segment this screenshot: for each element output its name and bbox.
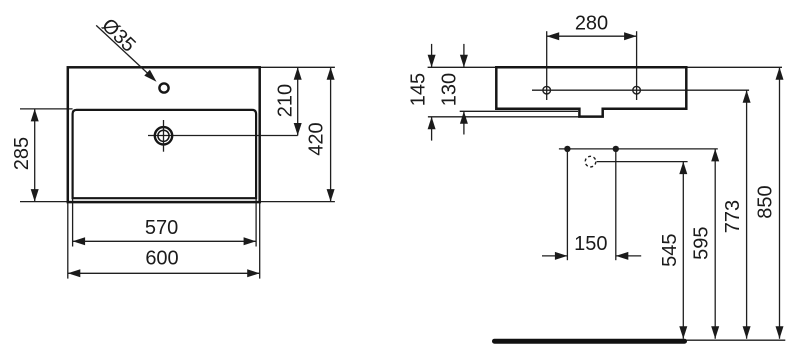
dim 145 line	[431, 44, 433, 67]
dim 570 line	[73, 240, 257, 242]
label Ø35 leader line	[96, 25, 152, 77]
basin outer rect	[68, 67, 260, 202]
mounting-hole centerline (to 773 dim)	[532, 89, 749, 91]
dim 850 line	[779, 67, 781, 339]
svg-text:420: 420	[306, 122, 328, 155]
drain crosshair vertical	[163, 120, 165, 152]
supply dots line	[559, 148, 718, 150]
drain centerline to 210 dim	[148, 135, 298, 137]
mounting hole right	[633, 86, 641, 94]
basin profile	[496, 67, 686, 116]
dim 280 extension lines through holes	[546, 31, 548, 100]
drain outer ring	[155, 127, 172, 144]
svg-text:545: 545	[659, 234, 681, 267]
drain inner ring	[158, 130, 169, 141]
svg-text:210: 210	[275, 84, 297, 117]
top-right extension line (outer top level)	[260, 66, 335, 68]
dim 420 line	[330, 67, 332, 201]
extension line at tab bottom (145 dim)	[428, 116, 580, 118]
faucet hole	[159, 83, 168, 92]
waste outlet centerline (to 545 dim)	[597, 161, 688, 163]
dim 210 line	[297, 67, 299, 135]
dim 570 extension lines	[72, 198, 74, 246]
dim 600 line	[68, 272, 260, 274]
dim 600 extension lines	[67, 202, 69, 279]
svg-text:280: 280	[575, 12, 608, 34]
svg-text:150: 150	[574, 233, 607, 255]
dim 773 line	[746, 90, 748, 339]
dim 545 line	[682, 162, 684, 339]
svg-text:600: 600	[145, 248, 178, 270]
dim 130 line	[463, 44, 465, 67]
dim 285 line	[34, 109, 36, 202]
mounting hole left	[543, 86, 551, 94]
svg-text:145: 145	[408, 73, 430, 106]
svg-text:570: 570	[145, 217, 178, 239]
svg-text:130: 130	[439, 73, 461, 106]
svg-text:850: 850	[754, 185, 776, 218]
dim 595 line	[714, 149, 716, 339]
waste outlet dashed circle	[585, 156, 596, 167]
basin inner rim	[73, 110, 257, 198]
top extension line left (to 145 dim)	[428, 66, 497, 68]
svg-text:773: 773	[722, 200, 744, 233]
floor line thick	[495, 339, 685, 344]
top extension line right (to 850 dim)	[686, 66, 782, 68]
supply dot right	[613, 146, 619, 152]
floor line thin extension	[685, 339, 786, 341]
dim 285 extension line top (inner rim level)	[20, 108, 73, 110]
bottom extension line (outer bottom level, spans both sides)	[20, 201, 335, 203]
dim 150 line	[542, 255, 567, 257]
svg-text:285: 285	[11, 137, 33, 170]
dim 150 extension lines	[566, 149, 568, 260]
dim 280 line	[547, 35, 637, 37]
extension line at basin bottom (130 dim)	[460, 110, 578, 112]
supply dot left	[564, 146, 570, 152]
svg-text:595: 595	[691, 227, 713, 260]
